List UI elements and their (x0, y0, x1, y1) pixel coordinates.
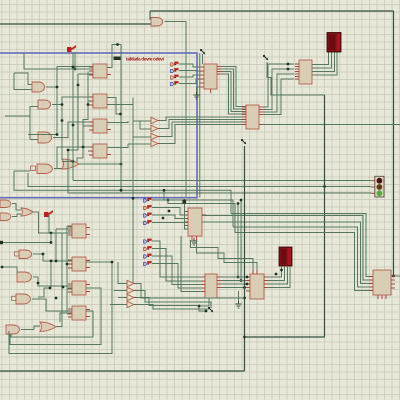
decoder U7 (246, 105, 259, 129)
seven-segment display DS2 (279, 247, 292, 266)
wire mesh v1 (72, 53, 74, 181)
wire U6-disp a (312, 52, 329, 65)
wire U6-disp b (312, 52, 332, 68)
wire lmesh v4 (38, 261, 51, 297)
wire A2 input feed (5, 107, 38, 117)
node mesh j7 (82, 146, 85, 149)
and-gate B2 (0, 213, 11, 221)
node P9 j1 (50, 232, 53, 235)
and-gate A1 (32, 82, 45, 92)
wire gate U9 top input stub (149, 11, 151, 20)
svg-text:D: D (170, 82, 174, 88)
node U12 in j2 (246, 283, 249, 286)
node lmesh j8 (66, 263, 69, 266)
node mesh j3 (56, 86, 59, 89)
wire A5 up link (57, 147, 93, 169)
wire U8 left drop (181, 236, 201, 292)
and-gate B1 (0, 200, 11, 208)
node PL1 j (183, 199, 186, 202)
wire mesh dff3 fb (83, 125, 93, 127)
wire B4 out (33, 254, 72, 261)
clock block (114, 57, 121, 61)
wire run r2 (202, 216, 373, 281)
wire lmesh h6 (2, 267, 17, 274)
wire B5 out (33, 277, 72, 286)
edge terminal (0, 241, 3, 244)
wire A3 inputs (30, 139, 38, 141)
decoder U11 (205, 274, 217, 298)
node U12 in j1 (246, 276, 249, 279)
and-gate B7 (6, 325, 20, 334)
svg-text:D: D (143, 247, 147, 253)
pin arrow net B (241, 139, 243, 141)
flip-flop U13 (72, 224, 86, 238)
wire box edge net (199, 53, 201, 198)
driver U10 (373, 270, 391, 295)
ground U5 (196, 92, 198, 95)
pin arrow net C (208, 307, 210, 309)
wire long drop x121 (120, 45, 122, 191)
wire bracket b1 (14, 171, 231, 214)
wire A3 output (53, 122, 93, 138)
wire b1 stub (14, 170, 30, 172)
wire traffic yellow (28, 173, 371, 187)
node U11 j1 (198, 305, 201, 308)
bcd decoder U6 (299, 60, 312, 84)
counter U8 (188, 208, 202, 236)
node P0 junction (74, 68, 77, 71)
buffer T1 (151, 117, 158, 123)
node lmesh j7 (62, 286, 65, 289)
wire net A drop (267, 62, 325, 95)
node b1 j2 (132, 197, 135, 200)
subcircuit boundary box (0, 53, 197, 198)
svg-text:D: D (170, 75, 174, 81)
wire U8 q1 down (191, 240, 254, 274)
wire traffic red (73, 180, 371, 182)
node drop241 top j (240, 199, 243, 202)
wire A2 output (52, 97, 93, 105)
node B4 j (42, 253, 45, 256)
wire U7 o2 (263, 69, 294, 110)
and-gate A3 (38, 132, 52, 143)
wire U4 output (107, 144, 128, 148)
wire U7 o4 (263, 79, 294, 115)
wire traffic green (68, 162, 371, 193)
wire T5 input (118, 262, 127, 284)
wire long x245 (244, 146, 246, 371)
flip-flop U15 (72, 281, 86, 295)
wire A2 input feed b (29, 116, 31, 140)
or-gate A4 (62, 159, 79, 169)
decoder U12 (250, 274, 264, 299)
svg-text:D: D (143, 213, 147, 219)
node b2 j (163, 189, 166, 192)
node A4 out j (120, 163, 123, 166)
node PL2 j (168, 210, 171, 213)
and-gate B5 (17, 272, 31, 282)
buffer T7 (127, 294, 134, 300)
wire B8 feedback C (9, 262, 112, 354)
wire B7 out (21, 326, 40, 330)
pin arrow U5 clock (200, 49, 202, 51)
node drop241 bot j (240, 279, 243, 282)
wire right feedback drop (393, 11, 395, 276)
wire run r3 (202, 222, 373, 284)
input stub B6 (12, 296, 17, 300)
input stub B4 (15, 252, 20, 256)
node U11 j2 (205, 310, 208, 313)
wire U5 QC (221, 72, 246, 112)
wire U8 clk drop (185, 203, 189, 229)
wire PL1 link (152, 200, 188, 212)
node U6 in j2 (287, 68, 290, 71)
wire DS2 d (268, 266, 290, 288)
wire PR4 link (179, 79, 200, 84)
wire P0 branch left (24, 53, 75, 69)
wire mid vertical x324 (324, 95, 326, 337)
wire B3 out (33, 212, 72, 233)
buffer T5 (127, 280, 134, 286)
wire mesh v3 (77, 72, 88, 163)
wire T7 out (136, 298, 199, 306)
wire long input bus left (0, 23, 151, 25)
wire PL8 link (152, 264, 201, 289)
ground U8 (193, 238, 195, 241)
wire T7 input (118, 297, 127, 299)
svg-text:D: D (143, 206, 147, 212)
wire lmesh v1 (56, 233, 62, 327)
wire long drop x133 (132, 98, 134, 284)
buffer T2 (151, 125, 158, 131)
wire U11-U12 d (221, 287, 246, 289)
node mesh j9 (56, 133, 59, 136)
wire A1 output (46, 67, 93, 88)
wire top feedback net (150, 10, 394, 12)
wire T6 out (136, 291, 211, 309)
wire U6-disp d (312, 52, 337, 75)
node drop238 bot j (237, 276, 240, 279)
wire PL2 link (152, 208, 188, 216)
wire mesh dff2 fb (88, 101, 93, 105)
wire U2-x133 link (107, 104, 133, 106)
node IC5 output junction (392, 275, 395, 278)
wire run r1 (231, 214, 373, 277)
wire T8 input (110, 304, 127, 306)
wire drop x238 (237, 204, 239, 278)
flip-flop U16 (72, 306, 86, 320)
wire U3 output (107, 121, 128, 123)
or-gate B3 (21, 208, 33, 216)
node lmesh j5 (49, 287, 52, 290)
wire T8 out (136, 305, 209, 310)
wire T4 out (160, 125, 246, 144)
node mesh j10 (77, 84, 80, 87)
wire T1 input (133, 120, 151, 122)
node traffic mid junction (323, 185, 326, 188)
wire U5 QB (221, 69, 246, 109)
and-gate A2 (38, 100, 51, 109)
wire U9 output (165, 22, 187, 198)
node lmesh j3 (1, 266, 4, 269)
wire DS2 b (268, 266, 285, 281)
wire U5 clock pin (202, 54, 204, 64)
wire mesh v2 (68, 74, 78, 162)
traffic light TL1 (375, 176, 384, 197)
flip-flop U2 (93, 94, 107, 108)
wire mesh v4 (61, 105, 63, 161)
wire mesh dff4 fb (88, 150, 93, 152)
node b3 j (167, 199, 170, 202)
node mesh j4 (87, 103, 90, 106)
wire A1 input feed a (14, 73, 32, 85)
wire IC5 output to right edge (391, 275, 400, 277)
wire bracket b2 (164, 190, 233, 227)
node U6 in j1 (287, 63, 290, 66)
node lmesh j2 (55, 260, 58, 263)
wire A4 top input (62, 161, 73, 163)
wire B6 out (32, 299, 72, 311)
and-gate B6 (16, 294, 30, 304)
wire gnd stub (238, 291, 240, 301)
wire U11-U12 a (221, 276, 246, 278)
node PL3 j (162, 217, 165, 220)
wire edge link (0, 233, 51, 243)
wire U11 steps (199, 298, 209, 311)
wire PL7 link (152, 256, 201, 285)
wire bottom link (245, 336, 325, 338)
wire PL5 link (152, 241, 201, 277)
node clk junction (116, 43, 119, 46)
svg-text:D: D (170, 69, 174, 75)
wire T2 input (140, 121, 151, 129)
and-gate U9 (151, 18, 163, 27)
ground G2 (238, 301, 240, 304)
node x245 bottom j (243, 336, 246, 339)
node lmesh j6 (55, 297, 58, 300)
wire lmesh h2 (56, 228, 72, 230)
node U8 clk j (183, 200, 187, 204)
wire U1 output up (107, 45, 121, 68)
wire U11-U12 b (221, 280, 246, 282)
wire lmesh h4 (67, 288, 72, 290)
wire U5 QD (221, 74, 246, 114)
node A4 in j (72, 160, 75, 163)
node DS2 j2 (275, 273, 278, 276)
wire PL6 link (152, 249, 201, 282)
wire run r5 (235, 233, 373, 291)
flip-flop U3 (93, 119, 107, 133)
wire U8 q2 down (197, 240, 258, 274)
wire T3 input (133, 136, 151, 138)
wire lmesh v3 (55, 229, 57, 261)
wire PR1 link (179, 64, 200, 67)
svg-text:D: D (143, 221, 147, 227)
wire B8 feedback A (11, 311, 93, 337)
wire U5 ground link (197, 87, 201, 92)
pin arrow net A (263, 55, 265, 57)
probe flag P9 (44, 212, 49, 217)
wire bottom rail (0, 370, 245, 372)
node x245 mid j (243, 297, 246, 300)
wire U7 o3 (263, 74, 294, 112)
svg-text:D: D (143, 262, 147, 268)
node mesh j8 (67, 149, 70, 152)
counter U5 (204, 64, 217, 89)
wire U6-disp c (312, 52, 335, 72)
wire PR2 link (179, 70, 200, 73)
node DS2 j1 (280, 269, 283, 272)
svg-text:D: D (143, 254, 147, 260)
wire DS2 c (268, 266, 288, 284)
node edge j (50, 241, 53, 244)
node lmesh j4 (37, 282, 40, 285)
wire A3 input b (28, 134, 38, 136)
wire bracket b3 (168, 200, 235, 233)
buffer T6 (127, 287, 134, 293)
wire PL3 link (152, 215, 188, 219)
node mesh j5 (61, 119, 64, 122)
wire mesh h1 (38, 87, 57, 135)
buffer T4 (151, 140, 158, 146)
svg-text:D: D (170, 62, 174, 68)
node fbC j (111, 261, 114, 264)
node lmesh j1 (50, 260, 53, 263)
or-gate B8 (40, 322, 56, 332)
svg-text:isiklarla devre odevi: isiklarla devre odevi (126, 57, 164, 63)
node mesh j6 (72, 124, 75, 127)
node b1 j (120, 189, 123, 192)
node x245 j1 (243, 286, 246, 289)
wire T4 input (128, 143, 151, 145)
seven-segment display DS1 (327, 33, 341, 53)
wire P0 branch to DFF U1 (75, 68, 93, 70)
node mesh j1 (72, 66, 75, 69)
wire lmesh h5 (67, 313, 72, 315)
and-gate B4 (19, 250, 32, 259)
wire A4 output (79, 163, 121, 165)
wire T3 out (160, 122, 246, 137)
wire lmesh v2 (60, 226, 67, 322)
wire lmesh h3 (67, 263, 72, 265)
svg-text:D: D (143, 239, 147, 245)
wire PR3 link (179, 75, 200, 77)
wire run r4 (233, 227, 373, 287)
wire P9 stub (48, 215, 50, 233)
buffer T8 (127, 301, 134, 307)
buffer T3 (151, 133, 158, 139)
wire T5 out (136, 284, 245, 299)
wire B1 out (12, 204, 21, 211)
wire A5 output (54, 168, 62, 170)
wire U11-U12 c (221, 283, 246, 285)
wire B8 feedback B (10, 288, 101, 345)
wire A1 input feed b (14, 73, 32, 90)
flip-flop U14 (72, 257, 86, 271)
wire PL4 link (152, 222, 188, 224)
svg-text:D: D (143, 198, 147, 204)
wire U5 QA (221, 67, 246, 107)
wire lmesh h1 (67, 225, 72, 227)
wire U7 o1 (263, 64, 294, 107)
node mesh j2 (61, 103, 64, 106)
wire T2 out (160, 120, 246, 129)
and-gate A5 (37, 164, 52, 174)
flip-flop U1 (93, 64, 107, 78)
wire U2 output (107, 98, 121, 115)
wire DS2 a (268, 266, 282, 277)
wire U7 long output (263, 124, 400, 126)
flip-flop U4 (93, 144, 107, 158)
input stub A5 (31, 166, 36, 171)
wire B2 out (12, 214, 21, 217)
node U2 out junction (119, 113, 122, 116)
node drop238 top j (237, 202, 240, 205)
wire T1 out (160, 117, 246, 121)
probe flag P0 (67, 47, 72, 52)
wire P0 stub (74, 52, 76, 69)
wire mesh dff1 fb (78, 73, 93, 75)
wire drop x241 (240, 200, 242, 281)
wire T6 input (114, 290, 127, 292)
